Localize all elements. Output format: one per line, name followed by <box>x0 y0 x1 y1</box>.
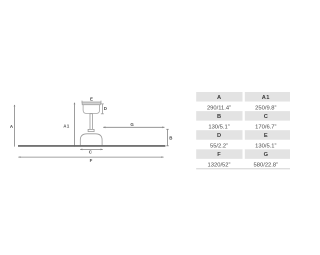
dimension A line <box>14 105 16 147</box>
dimension E line <box>82 101 101 104</box>
table header row B / C <box>196 111 242 121</box>
svg-text:1320/52”: 1320/52” <box>208 163 231 169</box>
dimension D bracket <box>101 104 104 114</box>
svg-text:130/5.1”: 130/5.1” <box>208 125 229 131</box>
svg-text:G: G <box>264 152 269 158</box>
svg-text:B: B <box>217 114 221 120</box>
dimension G line <box>103 126 164 128</box>
table bottom border <box>196 168 290 170</box>
svg-text:55/2.2”: 55/2.2” <box>210 144 228 150</box>
svg-text:D: D <box>217 133 221 139</box>
table header row A / A1 <box>196 92 242 102</box>
table header row F / G <box>196 149 242 159</box>
dimension F line <box>18 156 163 158</box>
svg-text:E: E <box>264 133 268 139</box>
svg-text:580/22.8”: 580/22.8” <box>254 163 279 169</box>
dimension B line <box>166 129 168 146</box>
svg-text:170/6.7”: 170/6.7” <box>255 125 276 131</box>
svg-text:130/5.1”: 130/5.1” <box>255 144 276 150</box>
svg-text:B: B <box>169 136 172 141</box>
svg-text:F: F <box>217 152 221 158</box>
rod collar <box>88 129 94 131</box>
svg-text:E: E <box>90 96 93 101</box>
motor housing <box>80 134 102 146</box>
dimensions table <box>196 92 290 169</box>
table header row D / E <box>196 130 242 140</box>
svg-text:D: D <box>104 106 107 111</box>
dimension A1 line <box>74 103 76 147</box>
svg-text:C: C <box>264 114 268 120</box>
svg-text:A1: A1 <box>262 95 270 101</box>
svg-text:A: A <box>217 95 221 101</box>
canopy <box>82 103 100 113</box>
downrod <box>90 114 92 130</box>
dimension C line <box>80 149 103 151</box>
svg-text:G: G <box>130 122 134 127</box>
blade line <box>18 145 165 147</box>
svg-text:F: F <box>90 158 93 163</box>
svg-text:250/9.8”: 250/9.8” <box>255 105 276 111</box>
svg-text:290/11.4”: 290/11.4” <box>207 105 231 111</box>
svg-text:A1: A1 <box>63 124 70 129</box>
